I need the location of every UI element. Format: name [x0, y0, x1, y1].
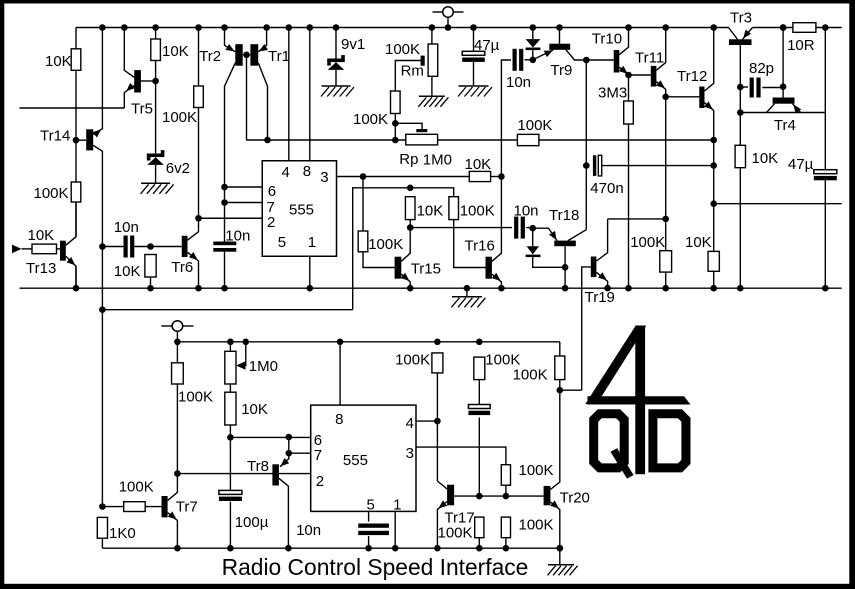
resistor 10K pin3 — [469, 171, 490, 181]
ground below 9v1 — [322, 85, 351, 87]
resistor 100K Tr11 emitter — [660, 251, 672, 272]
transistor Tr6 — [182, 236, 188, 257]
resistor 1K0 — [97, 517, 107, 538]
node 10K junction — [147, 243, 154, 250]
wire 100K to Tr16 base — [454, 220, 486, 268]
node 100K rail junction a — [434, 339, 441, 346]
wire pin4 node to Tr17 collector — [436, 421, 438, 481]
node Tr14 base junction — [73, 137, 80, 144]
resistor 100K pin4 pullup — [432, 353, 443, 373]
svg-text:100K: 100K — [630, 234, 665, 251]
resistor 100K below Tr14 — [71, 182, 81, 202]
svg-text:Rp: Rp — [399, 151, 418, 168]
node Tr7 collector junction — [174, 470, 181, 477]
transistor Tr2 — [235, 44, 242, 65]
node Tr18 emitter junction — [529, 225, 536, 232]
svg-text:5: 5 — [278, 234, 286, 251]
wire 10R node down — [824, 28, 826, 170]
wire 10n to diode node — [525, 59, 533, 61]
wire 100K to Tr15 base — [363, 252, 395, 268]
wire 10K to 0V rail — [739, 168, 741, 289]
node Tr20 collector junction — [557, 387, 564, 394]
resistor 100K Tr20 collector — [555, 356, 565, 380]
resistor 10K Tr15 collector — [405, 197, 415, 220]
resistor 10K R1 — [71, 49, 81, 71]
wire Tr10 emitter to Tr11 base — [629, 74, 651, 76]
supply terminal circle lower — [172, 321, 183, 332]
node Tr18 base junction — [562, 264, 569, 271]
Rp wiper bar — [416, 129, 427, 132]
node 1K0 junction — [99, 503, 106, 510]
transistor Tr14 — [86, 129, 93, 150]
node lower supply junction — [99, 306, 106, 313]
wire supply circle to rail — [447, 17, 449, 27]
wire 10K to Tr15 collector node — [409, 220, 411, 228]
wire rail to 9v1 zener — [335, 28, 337, 59]
resistor 100K Tr15 base — [358, 231, 368, 252]
svg-text:10K: 10K — [45, 53, 72, 70]
logo 4QD — [585, 326, 690, 479]
Rm wiper bar — [421, 56, 425, 66]
resistor 3M3 — [624, 101, 634, 124]
wire 100K to lower 0V rail — [505, 538, 507, 549]
svg-text:Tr12: Tr12 — [677, 68, 707, 85]
wire Tr11 emitter node down — [665, 97, 667, 219]
transistor Tr19 — [591, 257, 597, 278]
wire wiper to rail — [245, 342, 247, 366]
node Tr14 emitter rail junction — [99, 24, 106, 31]
wire Tr16 base feed — [353, 188, 454, 310]
wire supply to lower rail — [176, 331, 178, 342]
wire 100K to pin4 node — [436, 373, 438, 421]
wire Tr15 collector node to 10n — [410, 227, 512, 229]
transistor Tr17 — [447, 485, 454, 506]
node pin7 junction — [221, 199, 228, 206]
resistor 10K input — [32, 244, 57, 254]
svg-text:Tr3: Tr3 — [730, 10, 752, 27]
transistor Tr7 — [162, 496, 168, 517]
supply terminal circle top — [443, 7, 454, 18]
wire base node to 0V rail — [564, 267, 566, 288]
transistor Tr13 — [60, 241, 66, 261]
node Tr9 collector junction — [583, 57, 590, 64]
svg-text:6v2: 6v2 — [166, 160, 190, 177]
svg-text:10R: 10R — [787, 37, 815, 54]
wire 10K R2 to base node — [155, 61, 157, 154]
svg-text:47µ: 47µ — [474, 37, 500, 54]
wire Tr13 emitter to 0V rail — [75, 267, 77, 289]
node ramp base junction — [476, 493, 483, 500]
svg-text:8: 8 — [303, 163, 311, 180]
potentiometer Rp 1M0 body — [406, 134, 438, 145]
wire Tr19 collector top — [608, 218, 666, 220]
wire 555 pin6 — [225, 186, 263, 188]
svg-text:100K: 100K — [353, 111, 388, 128]
svg-text:82p: 82p — [749, 60, 774, 77]
node ground tap junction — [464, 285, 471, 292]
svg-text:8: 8 — [335, 411, 343, 428]
wire 10K R1 branch — [75, 28, 77, 49]
svg-text:100K: 100K — [519, 462, 554, 479]
wire Tr2 Tr1 base link — [243, 54, 251, 56]
transistor Tr16 — [486, 257, 492, 279]
wire 100K to Rp node — [394, 114, 396, 141]
wire 555 pin1 to 0V — [394, 511, 396, 548]
node wiper rail junction — [243, 339, 250, 346]
wire rail to Rm pot — [431, 28, 433, 45]
svg-text:10K: 10K — [685, 234, 712, 251]
svg-text:10K: 10K — [162, 43, 189, 60]
node timing junction — [227, 434, 234, 441]
wire 1K0 to lower 0V rail — [101, 538, 103, 548]
resistor 100K pin3 lower — [501, 517, 510, 538]
resistor 100K Tr7 base — [124, 502, 146, 512]
transistor Tr1 — [250, 44, 258, 65]
wire 100K to Tr6 collector node — [198, 108, 200, 219]
1M0 wiper arrow — [236, 361, 246, 370]
svg-text:Tr9: Tr9 — [550, 62, 572, 79]
resistor 100K pin3 upper — [501, 465, 510, 486]
node 10n junction — [99, 243, 106, 250]
svg-text:470n: 470n — [590, 180, 623, 197]
wire 10n to lower 0V rail — [368, 536, 370, 548]
transistor Tr18 — [554, 241, 576, 247]
node divider junction — [503, 493, 510, 500]
wire Tr18 base down — [564, 246, 566, 267]
svg-text:100K: 100K — [119, 478, 154, 495]
capacitor 10n top middle — [513, 49, 517, 71]
border frame — [0, 0, 855, 4]
svg-text:Tr19: Tr19 — [585, 289, 615, 306]
wire 10K to pin6 node — [229, 425, 231, 437]
capacitor 10n Tr18 — [514, 217, 518, 239]
wire Tr7 base 100K — [102, 506, 123, 508]
capacitor 10n pin5 — [358, 524, 389, 528]
wire Tr9 node down — [585, 60, 587, 230]
wire lower supply link — [102, 309, 352, 311]
svg-text:10n: 10n — [514, 203, 539, 220]
node Tr1 emitter rail junction — [263, 24, 270, 31]
svg-text:1: 1 — [308, 234, 316, 251]
svg-text:Tr2: Tr2 — [199, 48, 221, 65]
node Tr5 base junction — [152, 78, 159, 85]
transistor Tr3 — [729, 39, 752, 45]
svg-text:10n: 10n — [114, 219, 139, 236]
ground below 47u — [459, 85, 489, 87]
wire R1 to Tr14 base node — [75, 70, 77, 182]
svg-text:1M0: 1M0 — [423, 152, 452, 169]
wire rail to 1M0 — [229, 342, 231, 352]
resistor 100K Tr16 base — [449, 197, 459, 220]
svg-text:100K: 100K — [162, 109, 197, 126]
svg-text:Radio Control Speed Interface: Radio Control Speed Interface — [222, 554, 529, 580]
svg-text:555: 555 — [343, 452, 368, 469]
wire Tr10 emitter to 3M3 — [628, 75, 630, 101]
resistor 10K R2 — [151, 39, 161, 61]
svg-text:3M3: 3M3 — [598, 85, 627, 102]
wire 82p right — [762, 87, 783, 89]
svg-text:100K: 100K — [178, 389, 213, 406]
resistor 100K Rm lower — [391, 91, 401, 114]
wire 10K to x501 node — [491, 176, 502, 178]
wire rail to 555 pin8 — [309, 28, 311, 161]
node Rp mid rail junction — [392, 137, 399, 144]
node Tr5 collector rail junction — [121, 24, 128, 31]
wire 555 pin2 — [199, 217, 263, 219]
wire 10n to 0V rail — [224, 250, 226, 288]
wire pin6 node down — [288, 437, 290, 453]
wire rail to 47u cap — [473, 28, 475, 52]
svg-text:100K: 100K — [34, 185, 69, 202]
wire Tr20 node to Tr19 base — [560, 389, 582, 391]
transistor Tr15 — [395, 257, 402, 279]
svg-text:Tr8: Tr8 — [247, 458, 269, 475]
potentiometer Rm body — [428, 44, 438, 76]
node 82p junction — [737, 84, 744, 91]
svg-text:10K: 10K — [752, 150, 779, 167]
wire Tr17 Tr20 base line — [454, 495, 543, 497]
wire input to 10K — [22, 248, 33, 250]
svg-text:Tr17: Tr17 — [444, 510, 474, 527]
node pin7 junction lower — [286, 450, 293, 457]
node 82p Tr4 base junction — [780, 83, 787, 90]
svg-text:Tr18: Tr18 — [549, 207, 579, 224]
svg-text:10K: 10K — [417, 203, 444, 220]
svg-text:Tr10: Tr10 — [592, 30, 622, 47]
transistor Tr10 — [614, 50, 620, 73]
resistor 100K mid rail — [517, 134, 539, 145]
svg-text:Rm: Rm — [401, 62, 424, 79]
capacitor 100u — [219, 490, 242, 494]
wire 100K to Tr20 node — [559, 380, 561, 391]
svg-text:3: 3 — [406, 445, 414, 462]
wire rail to 100K — [198, 28, 200, 87]
node 10K Tr15 junction — [407, 185, 414, 192]
svg-text:2: 2 — [267, 214, 275, 231]
capacitor 10n timing — [213, 242, 236, 246]
capacitor 470n — [593, 155, 596, 176]
wire 100K to base node — [505, 485, 507, 496]
wire Tr4 collector emitter line — [740, 112, 825, 114]
svg-text:1K0: 1K0 — [109, 525, 136, 542]
capacitor electrolytic ramp — [468, 405, 490, 409]
wire cap to base node — [478, 418, 480, 497]
wire Rm wiper to 100K — [395, 61, 420, 92]
wire 3M3 to 0V rail — [628, 124, 630, 288]
node D1 rail junction — [530, 24, 537, 31]
wire 10n2 top link — [501, 60, 511, 177]
node Tr4 collector junction — [737, 109, 744, 116]
svg-text:Tr16: Tr16 — [465, 238, 495, 255]
capacitor 47u right — [814, 170, 837, 174]
wire 47u to 0V rail — [824, 180, 826, 288]
node 470n junction — [583, 162, 590, 169]
resistor 100K Tr17 emitter — [475, 517, 484, 538]
capacitor 10n input — [124, 236, 128, 258]
svg-text:100µ: 100µ — [235, 514, 269, 531]
wire 10K to 0V rail — [150, 277, 152, 288]
node pin6 junction — [221, 184, 228, 191]
wire 9v1 to ground — [335, 70, 337, 86]
node 10R left junction — [780, 24, 787, 31]
wire 0V rail y288 — [20, 287, 842, 289]
resistor 10K Tr12 emitter — [708, 251, 719, 271]
svg-text:Tr6: Tr6 — [171, 259, 193, 276]
wire output line y203.7 — [714, 203, 842, 205]
node Tr10 emitter junction — [625, 72, 632, 79]
wire 555 pin3 line — [337, 176, 470, 178]
wire Rp wiper link — [395, 123, 422, 129]
node 9v1 rail junction — [333, 24, 340, 31]
ground 0V rail — [452, 296, 482, 298]
node pin6 junction lower — [286, 434, 293, 441]
svg-text:10n: 10n — [225, 228, 250, 245]
wire 555 pin7 — [225, 202, 263, 204]
resistor 10K timing — [225, 392, 236, 425]
wire pin3 node to 100K — [362, 177, 364, 232]
wire Tr3 base down — [739, 45, 741, 145]
node 1M0 rail junction — [227, 339, 234, 346]
node pin4 junction — [434, 418, 441, 425]
svg-text:100K: 100K — [519, 517, 554, 534]
svg-text:10K: 10K — [28, 227, 55, 244]
resistor 10K Tr6 base — [145, 255, 156, 278]
wire rail to 10K R2 — [155, 28, 157, 40]
ground below 6v2 — [141, 182, 170, 184]
node Rp wiper junction — [392, 120, 399, 127]
node pin3 junction — [360, 173, 367, 180]
wire 47u to ground — [473, 62, 475, 86]
wire timing node to 555 pin6 — [230, 436, 310, 438]
wire 82p left — [740, 86, 748, 88]
svg-text:10K: 10K — [241, 401, 268, 418]
wire base node to mid rail — [246, 55, 248, 140]
node 47u rail junction — [470, 24, 477, 31]
svg-text:Tr15: Tr15 — [411, 260, 441, 277]
node Tr1 collector mid rail junction — [264, 137, 271, 144]
op-amp U1 555 timer — [262, 161, 336, 257]
svg-text:Tr14: Tr14 — [40, 128, 70, 145]
wire 1M0 to 10K — [229, 384, 231, 392]
ground below Rm — [419, 95, 445, 97]
wire 555 pin7 lower — [289, 452, 311, 454]
wire supply to 100K — [176, 342, 178, 363]
input terminal arrow — [12, 245, 22, 254]
svg-text:100K: 100K — [438, 525, 473, 542]
wire Tr14 collector to lower rail — [101, 310, 103, 507]
transistor Tr5 — [134, 70, 141, 92]
resistor 10K Tr3 base — [735, 145, 745, 167]
wire Tr14 collector down — [101, 247, 103, 310]
node x501 junction — [498, 173, 505, 180]
wire zener to ground — [155, 165, 157, 183]
resistor 100K ramp — [474, 357, 485, 380]
wire top supply rail right segment — [753, 27, 842, 29]
svg-text:100K: 100K — [513, 367, 548, 384]
node Tr12 470n junction — [710, 162, 717, 169]
svg-text:Tr4: Tr4 — [774, 117, 796, 134]
node Tr19 collector junction — [662, 216, 669, 223]
svg-text:6: 6 — [268, 183, 276, 200]
node Tr6 collector junction — [195, 215, 202, 222]
resistor 10R — [793, 23, 816, 33]
wire 100K to Tr7 base — [145, 506, 161, 508]
wire timing node to 100u — [229, 437, 231, 490]
wire Tr8 base pin2 line — [177, 473, 310, 475]
transistor Tr8 — [272, 464, 279, 485]
svg-text:47µ: 47µ — [788, 156, 814, 173]
wire Rm pot to ground — [431, 76, 433, 96]
resistor 100K Tr7 collector — [172, 363, 184, 384]
capacitor 47u top — [462, 51, 485, 55]
svg-text:100K: 100K — [517, 117, 552, 134]
svg-text:100K: 100K — [460, 203, 495, 220]
svg-text:10n: 10n — [296, 522, 321, 539]
svg-text:4: 4 — [282, 164, 290, 181]
wire 100K to lower 0V rail — [478, 538, 480, 549]
svg-text:3: 3 — [320, 169, 328, 186]
wire Tr11 emitter to Tr12 base — [666, 96, 700, 98]
svg-text:100K: 100K — [385, 41, 420, 58]
wire rail to 555 pin4 — [288, 28, 290, 161]
wire 10K to 0V rail — [713, 271, 715, 288]
svg-text:100K: 100K — [368, 236, 403, 253]
zener diode 6v2 — [147, 154, 165, 158]
svg-text:7: 7 — [314, 447, 322, 464]
wire 100K to Tr13 collector — [75, 202, 77, 237]
wire 555 pin4 — [416, 420, 437, 422]
zener diode 9v1 — [327, 59, 345, 63]
resistor 100K Tr6 collector load — [194, 86, 204, 108]
capacitor 82p — [750, 78, 754, 98]
svg-text:Tr11: Tr11 — [635, 49, 664, 66]
node Tr12 output junction — [710, 200, 717, 207]
node lower ground junction — [557, 545, 564, 552]
wire rail to 100K Tr20 — [559, 342, 561, 356]
svg-text:1M0: 1M0 — [249, 358, 278, 375]
wire 100K to Tr7 collector node — [176, 384, 178, 474]
wire rail to lower ground — [559, 548, 561, 565]
svg-text:Tr7: Tr7 — [176, 499, 198, 516]
wire 10n to Tr6 base — [134, 246, 181, 248]
wire 10K to Tr13 base — [57, 248, 61, 250]
transistor Tr11 — [651, 66, 657, 87]
node 10R right junction — [822, 24, 829, 31]
wire mid rail y140 — [246, 139, 714, 141]
node diode 10n junction — [530, 57, 537, 64]
node lower rail junction — [174, 339, 181, 346]
svg-text:10K: 10K — [114, 263, 141, 280]
wire 10n to Tr18 node — [526, 227, 533, 229]
node shared base junction — [243, 52, 250, 59]
node 100K rail junction b — [476, 339, 483, 346]
transistor Tr9 — [549, 44, 570, 50]
transistor Tr12 — [699, 87, 704, 109]
svg-text:Tr1: Tr1 — [268, 48, 290, 65]
wire 100u to lower 0V rail — [229, 502, 231, 549]
wire lower 0V rail — [102, 547, 559, 549]
node Tr2 emitter rail junction — [221, 24, 228, 31]
wire Tr9 collector to Tr10 base — [586, 59, 613, 61]
wire rail to 555 pin8 — [339, 342, 341, 405]
diode D2 — [532, 228, 534, 246]
node pin8 rail junction — [337, 339, 344, 346]
wire top supply rail left segment — [76, 27, 729, 29]
svg-text:10n: 10n — [506, 74, 531, 91]
svg-text:Tr20: Tr20 — [560, 490, 590, 507]
wire pin3 to 100K chain — [416, 447, 506, 465]
svg-text:Tr13: Tr13 — [26, 260, 56, 277]
